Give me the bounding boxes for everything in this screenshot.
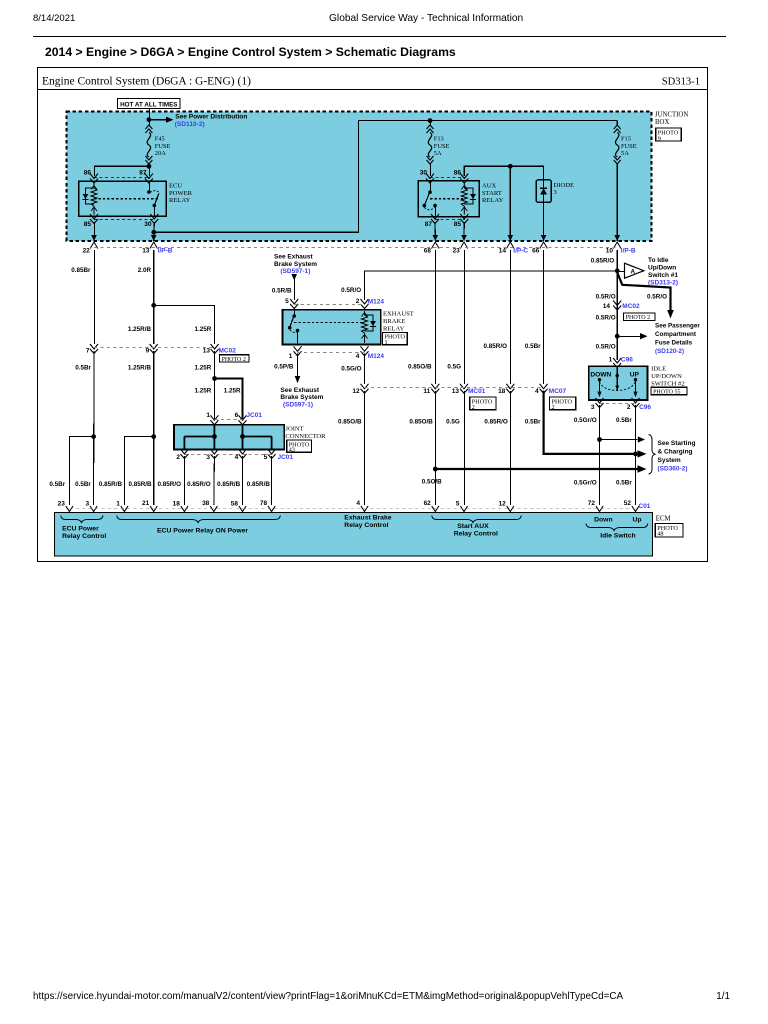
svg-text:43: 43 (289, 447, 295, 454)
svg-text:A: A (631, 269, 636, 276)
svg-text:7: 7 (86, 347, 90, 354)
svg-text:1: 1 (385, 339, 388, 346)
JC01 top pins (210, 415, 218, 425)
svg-text:(SD360-2): (SD360-2) (658, 466, 688, 473)
svg-text:1.25R: 1.25R (194, 364, 211, 371)
wire 18 to 12 (509, 391, 511, 505)
wire 0.85O/B col 68-11 (434, 250, 436, 384)
node 0.5Br split to pin23 (91, 434, 96, 439)
svg-text:Relay Control: Relay Control (344, 522, 388, 529)
node triangle A junction (615, 268, 620, 273)
svg-text:30: 30 (420, 170, 428, 177)
svg-text:38: 38 (202, 500, 210, 507)
svg-text:(SD120-2): (SD120-2) (655, 348, 684, 355)
svg-text:PHOTO 55: PHOTO 55 (653, 389, 680, 395)
svg-text:2: 2 (552, 404, 555, 411)
wire 0.5P/B down with arrow (297, 354, 299, 378)
wire 0.85R/O col 14-18 (509, 250, 511, 384)
arrow to See Power Distribution (149, 119, 166, 121)
exhaust relay actuation dashed (294, 322, 364, 324)
svg-text:0.5Br: 0.5Br (75, 481, 91, 488)
svg-text:4: 4 (535, 388, 539, 395)
svg-text:0.5R/O: 0.5R/O (596, 293, 616, 300)
svg-text:Up: Up (633, 516, 642, 523)
svg-text:MC07: MC07 (549, 388, 567, 395)
svg-text:DIODE: DIODE (554, 182, 575, 189)
svg-text:1.25R: 1.25R (224, 388, 241, 395)
node above ECU relay (147, 164, 152, 169)
svg-text:JC01: JC01 (278, 454, 294, 461)
svg-text:Engine Control System (D6GA :: Engine Control System (D6GA : G-ENG) (1) (42, 76, 251, 88)
node fuse details tap (615, 334, 620, 339)
cyan hot-at-all-times power block (67, 112, 652, 242)
brace ECU power relay control (61, 516, 103, 523)
svg-text:I/P-B: I/P-B (621, 247, 636, 254)
svg-text:0.85O/B: 0.85O/B (409, 418, 433, 425)
wire pin30 branch right and up to top bus (154, 121, 617, 233)
svg-text:MC02: MC02 (219, 347, 237, 354)
svg-text:1: 1 (289, 353, 293, 360)
arrow into pin 5 (291, 274, 297, 281)
svg-text:0.85R/O: 0.85R/O (591, 257, 615, 264)
svg-text:10: 10 (606, 247, 614, 254)
svg-text:PHOTO 2: PHOTO 2 (626, 315, 650, 321)
svg-text:5: 5 (456, 501, 460, 508)
svg-text:Relay Control: Relay Control (62, 533, 106, 540)
svg-text:0.5Br: 0.5Br (75, 364, 91, 371)
node F13 tap (428, 118, 433, 123)
svg-text:Compartment: Compartment (655, 331, 697, 338)
wire pin30 down (153, 222, 156, 241)
exhaust brake relay box (283, 310, 381, 345)
svg-text:0.85R/O: 0.85R/O (484, 418, 508, 425)
svg-text:1.25R: 1.25R (194, 326, 211, 333)
svg-text:Fuse Details: Fuse Details (655, 340, 693, 347)
svg-text:I/P-C: I/P-C (513, 247, 528, 254)
svg-text:(SD110-2): (SD110-2) (175, 121, 205, 128)
svg-text:68: 68 (424, 247, 432, 254)
svg-text:4: 4 (356, 353, 360, 360)
svg-text:1.25R/B: 1.25R/B (128, 364, 152, 371)
svg-text:(SD597-1): (SD597-1) (283, 401, 313, 408)
node 1.25R branch (151, 303, 156, 308)
svg-text:https://service.hyundai-motor.: https://service.hyundai-motor.com/manual… (33, 991, 623, 1002)
svg-text:Switch #1: Switch #1 (648, 272, 678, 279)
svg-text:PHOTO: PHOTO (385, 334, 406, 341)
wire 12 to ECM 4 (364, 391, 366, 505)
exhaust relay diode loop (365, 315, 374, 331)
svg-text:0.85R/O: 0.85R/O (158, 481, 182, 488)
svg-text:1/1: 1/1 (716, 991, 730, 1002)
svg-text:ECU Power: ECU Power (62, 526, 99, 533)
svg-text:AUX: AUX (482, 183, 497, 190)
svg-text:12: 12 (499, 501, 507, 508)
svg-text:ECU: ECU (169, 183, 182, 190)
svg-text:87: 87 (425, 221, 433, 228)
connector dashed line 85-30 (94, 219, 154, 221)
connector dashed line 87-85 AUX (435, 219, 464, 221)
svg-text:3: 3 (85, 501, 89, 508)
svg-text:85: 85 (84, 221, 92, 228)
svg-text:30: 30 (144, 221, 152, 228)
svg-text:POWER: POWER (169, 190, 193, 197)
svg-text:Start AUX: Start AUX (457, 523, 489, 530)
svg-text:4: 4 (356, 500, 360, 507)
svg-text:CONNECTOR: CONNECTOR (285, 433, 326, 440)
fuse F13 (430, 121, 432, 126)
exhaust relay switch (294, 310, 296, 316)
wire 0.5Br pin2 to 52 (635, 405, 637, 505)
svg-text:Brake System: Brake System (274, 261, 317, 268)
svg-text:1: 1 (609, 356, 613, 363)
svg-text:85: 85 (454, 221, 462, 228)
wire 0.5G/O pin4 to pin12 (364, 354, 366, 385)
svg-text:1.25R: 1.25R (194, 388, 211, 395)
M124 top pins (290, 299, 298, 309)
svg-text:F45: F45 (155, 136, 165, 143)
photo 2 box MC07 (550, 397, 576, 410)
svg-text:13: 13 (142, 247, 150, 254)
photo 2 box right (624, 313, 655, 320)
connector MC02 row (90, 344, 98, 354)
svg-text:23: 23 (58, 501, 66, 508)
svg-text:PHOTO: PHOTO (472, 398, 493, 405)
HOT AT ALL TIMES label (118, 99, 181, 109)
svg-text:12: 12 (352, 388, 360, 395)
svg-text:JUNCTION: JUNCTION (655, 112, 688, 119)
svg-text:0.85R/O: 0.85R/O (187, 481, 211, 488)
fuse F45 (145, 125, 152, 164)
idle up/down switch box (589, 366, 648, 400)
svg-text:66: 66 (532, 247, 540, 254)
diode D3 symbol (543, 180, 545, 202)
wire 13 to 5 (464, 391, 466, 505)
svg-text:0.5G: 0.5G (446, 418, 460, 425)
node 1.25R split to pin6 (212, 376, 217, 381)
AUX start relay box (418, 181, 479, 217)
node: power distribution tap (147, 117, 152, 122)
svg-text:Idle Switch: Idle Switch (600, 533, 636, 540)
svg-text:1: 1 (116, 501, 120, 508)
svg-text:See Passenger: See Passenger (655, 323, 700, 330)
svg-text:13: 13 (452, 388, 460, 395)
svg-text:System: System (658, 457, 681, 464)
joint connector box (174, 425, 284, 450)
ECU relay actuation dashed (94, 198, 158, 200)
svg-text:C96: C96 (621, 356, 633, 363)
pin 1 C96 (613, 358, 621, 368)
wire 2.0R col 13-9 (153, 250, 155, 344)
ECU relay coil (91, 183, 97, 215)
thick wire to see starting 3 (435, 468, 637, 470)
svg-text:0.85R/B: 0.85R/B (128, 481, 152, 488)
svg-text:2: 2 (627, 404, 631, 411)
ECM bottom connector row (66, 506, 73, 512)
svg-text:3: 3 (206, 454, 210, 461)
svg-text:23: 23 (453, 247, 461, 254)
brace ECU power relay ON power (117, 516, 280, 523)
svg-text:PHOTO: PHOTO (552, 398, 573, 405)
svg-text:11: 11 (423, 388, 430, 395)
svg-text:9: 9 (146, 347, 150, 354)
wire AUX87 down (434, 222, 436, 236)
svg-text:C01: C01 (639, 503, 651, 510)
photo 2 box MC02 (220, 355, 249, 362)
wire 0.5G col 23-13 (464, 250, 466, 384)
wire 0.5Br col 7-3 (93, 351, 95, 505)
wire branch to MC02 pin13 (154, 305, 215, 344)
svg-text:20A: 20A (155, 150, 166, 157)
svg-text:0.5R/B: 0.5R/B (272, 288, 292, 295)
bottom cyan ECM band (55, 513, 653, 557)
svg-text:4: 4 (235, 454, 239, 461)
svg-text:FUSE: FUSE (155, 143, 171, 150)
svg-text:2.0R: 2.0R (138, 267, 152, 274)
svg-text:See Exhaust: See Exhaust (280, 387, 319, 394)
svg-text:ECU Power Relay ON Power: ECU Power Relay ON Power (157, 528, 248, 535)
thick wire MC07-4 to see starting 2 (544, 391, 638, 454)
svg-text:3: 3 (591, 404, 595, 411)
node see starting tap1 (597, 437, 602, 442)
svg-text:2: 2 (176, 454, 180, 461)
wire 0.85Br col 22-7 (94, 250, 96, 344)
arrow to see passenger fuse details (617, 336, 640, 338)
JC bottom pins (180, 449, 188, 459)
svg-text:86: 86 (454, 170, 462, 177)
svg-text:0.85O/B: 0.85O/B (408, 363, 432, 370)
svg-text:BRAKE: BRAKE (383, 318, 405, 325)
wire AUX85 down (463, 222, 465, 236)
svg-text:1: 1 (206, 412, 210, 419)
svg-text:F15: F15 (621, 136, 631, 143)
wire node to pin14 down (509, 166, 511, 241)
svg-text:FUSE: FUSE (621, 143, 637, 150)
photo 1 box (383, 332, 408, 344)
wire 0.5Br col 66-4 (543, 250, 545, 384)
svg-text:62: 62 (424, 500, 432, 507)
node see-starting tap3 (433, 467, 438, 472)
svg-text:0.5Br: 0.5Br (616, 417, 632, 424)
header rule (33, 36, 726, 38)
thick branch to see passenger (617, 273, 670, 312)
connector dashed line 30-86 AUX (430, 176, 464, 178)
wire to pin 87 (149, 166, 151, 176)
ECU relay switch (149, 181, 151, 192)
svg-text:& Charging: & Charging (658, 449, 693, 456)
svg-text:FUSE: FUSE (434, 143, 450, 150)
node on 0.5Br crossing tap2 (633, 452, 638, 457)
svg-text:0.5R/O: 0.5R/O (596, 315, 616, 322)
svg-text:BOX: BOX (655, 119, 669, 126)
svg-text:87: 87 (139, 170, 147, 177)
svg-text:5A: 5A (434, 150, 442, 157)
wire pin85 down to cyan edge (94, 222, 96, 236)
C96 bottom pins (596, 398, 604, 408)
svg-text:2: 2 (472, 404, 475, 411)
svg-text:8/14/2021: 8/14/2021 (33, 13, 75, 24)
svg-text:52: 52 (624, 500, 632, 507)
fuse F15 (616, 121, 618, 126)
svg-text:86: 86 (84, 170, 92, 177)
svg-text:JC01: JC01 (246, 412, 262, 419)
connector dashed line I/P row (94, 247, 617, 249)
svg-text:ECM: ECM (656, 516, 671, 523)
node 1.25R/B split to pin1 (151, 434, 156, 439)
ECU relay diode loop (86, 188, 95, 204)
svg-text:Brake System: Brake System (280, 394, 323, 401)
svg-text:Global Service Way - Technical: Global Service Way - Technical Informati… (329, 13, 523, 24)
svg-text:0.85R/B: 0.85R/B (247, 481, 271, 488)
wire 1.25R/B col 9-21 (153, 351, 155, 505)
brace idle switch (586, 524, 648, 531)
svg-text:SD313-1: SD313-1 (662, 77, 700, 88)
node pin14 tap (508, 164, 513, 169)
svg-text:2014 > Engine > D6GA > Engine: 2014 > Engine > D6GA > Engine Control Sy… (45, 45, 456, 59)
AUX relay coil (461, 183, 467, 215)
ECU power relay box (79, 181, 166, 216)
wire from HOT label down (149, 109, 151, 127)
svg-text:HOT AT ALL TIMES: HOT AT ALL TIMES (120, 101, 177, 108)
svg-text:See Power Distribution: See Power Distribution (175, 113, 247, 120)
svg-text:14: 14 (603, 303, 611, 310)
svg-text:See Starting: See Starting (658, 440, 696, 447)
wire fuse F45 to relay node (149, 164, 151, 170)
wire branch to JC pin 6 (215, 379, 243, 421)
svg-text:EXHAUST: EXHAUST (383, 311, 414, 318)
svg-text:0.85R/B: 0.85R/B (217, 481, 241, 488)
svg-text:Exhaust Brake: Exhaust Brake (344, 514, 391, 521)
svg-text:F13: F13 (434, 136, 444, 143)
svg-text:0.5Gr/O: 0.5Gr/O (574, 417, 597, 424)
svg-text:JOINT: JOINT (285, 426, 303, 433)
svg-text:5: 5 (285, 298, 289, 305)
svg-text:I/P-B: I/P-B (158, 247, 173, 254)
svg-text:18: 18 (498, 388, 506, 395)
svg-text:0.5O/B: 0.5O/B (422, 479, 442, 486)
svg-text:Down: Down (594, 516, 613, 523)
svg-text:0.85R/O: 0.85R/O (484, 343, 508, 350)
triangle A to idle up/down switch 1 (625, 263, 644, 278)
title bar separator (38, 89, 708, 91)
svg-text:0.5Br: 0.5Br (49, 481, 65, 488)
JC internal bus (184, 425, 271, 450)
svg-text:0.5P/B: 0.5P/B (274, 364, 294, 371)
svg-text:18: 18 (173, 501, 181, 508)
photo 9 box (656, 128, 681, 141)
svg-text:DOWN: DOWN (590, 372, 611, 379)
exhaust relay coil (362, 311, 368, 343)
svg-text:2: 2 (356, 298, 360, 305)
svg-text:0.85Br: 0.85Br (71, 267, 91, 274)
svg-text:PHOTO: PHOTO (658, 130, 679, 137)
photo 2 box MC01 (470, 397, 496, 410)
svg-text:UP: UP (630, 372, 640, 379)
svg-text:C96: C96 (639, 404, 651, 411)
svg-text:To Idle: To Idle (648, 257, 669, 264)
wires JC to ECM row (183, 456, 185, 505)
svg-text:22: 22 (83, 247, 91, 254)
arrow see starting 1 (600, 439, 638, 441)
svg-text:MC02: MC02 (622, 303, 640, 310)
svg-text:14: 14 (499, 247, 507, 254)
svg-text:IDLE: IDLE (651, 366, 666, 373)
svg-text:48: 48 (657, 531, 663, 538)
wire F13 to AUX relay pin30 (430, 164, 432, 176)
connector dashed line 86-87 (94, 176, 149, 178)
wire 0.5R/O up from pin2 to bus (365, 271, 618, 300)
node pin30 branch (151, 230, 156, 235)
svg-text:0.5R/O: 0.5R/O (341, 287, 361, 294)
svg-text:0.5Br: 0.5Br (525, 343, 541, 350)
svg-text:1.25R/B: 1.25R/B (128, 326, 152, 333)
wire AUX pin86 up and right to diode (464, 166, 543, 180)
svg-text:21: 21 (142, 500, 150, 507)
AUX relay diode loop (464, 188, 473, 204)
svg-text:RELAY: RELAY (383, 325, 405, 332)
svg-text:72: 72 (588, 500, 596, 507)
main outer box (38, 68, 708, 562)
photo 48 box (655, 524, 683, 538)
svg-text:0.5G: 0.5G (447, 363, 461, 370)
svg-text:Up/Down: Up/Down (648, 265, 676, 272)
wire F15 down to cyan edge (616, 164, 618, 241)
svg-text:0.5Gr/O: 0.5Gr/O (574, 480, 597, 487)
svg-text:MC01: MC01 (468, 388, 486, 395)
svg-text:0.85R/B: 0.85R/B (99, 481, 123, 488)
svg-text:13: 13 (203, 347, 211, 354)
brace start aux relay control (432, 516, 522, 523)
photo 55 box (651, 387, 687, 394)
AUX relay actuation dashed (430, 198, 464, 200)
svg-text:0.85O/B: 0.85O/B (338, 418, 362, 425)
M124 bottom pins (294, 346, 302, 356)
svg-text:5: 5 (264, 454, 268, 461)
cyan block exit pins row (90, 235, 98, 249)
svg-text:M124: M124 (368, 299, 385, 306)
wire 1.25R col 13-1 (213, 351, 215, 420)
svg-text:0.5Br: 0.5Br (616, 480, 632, 487)
diode D3 box (536, 180, 551, 202)
see starting brace (649, 435, 656, 475)
wire diode down (543, 202, 545, 241)
photo 43 box (287, 440, 312, 452)
AUX relay switch (430, 181, 432, 192)
svg-text:58: 58 (231, 501, 239, 508)
wire to pin 86 (95, 166, 149, 176)
svg-text:M124: M124 (368, 353, 385, 360)
svg-text:Relay Control: Relay Control (454, 530, 498, 537)
wire 11 to 62 (434, 391, 436, 505)
svg-text:5A: 5A (621, 150, 629, 157)
svg-text:0.5G/O: 0.5G/O (341, 366, 361, 373)
svg-text:0.5R/O: 0.5R/O (596, 344, 616, 351)
svg-text:UP/DOWN: UP/DOWN (651, 373, 682, 380)
MC01/MC07 connector row (361, 384, 369, 394)
svg-text:START: START (482, 190, 502, 197)
svg-text:SWITCH #2: SWITCH #2 (651, 380, 685, 387)
svg-text:RELAY: RELAY (482, 197, 504, 204)
svg-text:9: 9 (658, 135, 661, 142)
wire 0.5Gr/O pin3 to 72 (599, 405, 601, 505)
svg-text:PHOTO 2: PHOTO 2 (222, 357, 246, 363)
svg-text:See Exhaust: See Exhaust (274, 254, 313, 261)
pin 14 MC02 inline (613, 301, 621, 311)
right main wire below pin10 (616, 250, 618, 360)
svg-text:78: 78 (260, 500, 268, 507)
svg-text:RELAY: RELAY (169, 197, 191, 204)
svg-text:0.5R/O: 0.5R/O (647, 293, 667, 300)
svg-text:6: 6 (235, 412, 239, 419)
